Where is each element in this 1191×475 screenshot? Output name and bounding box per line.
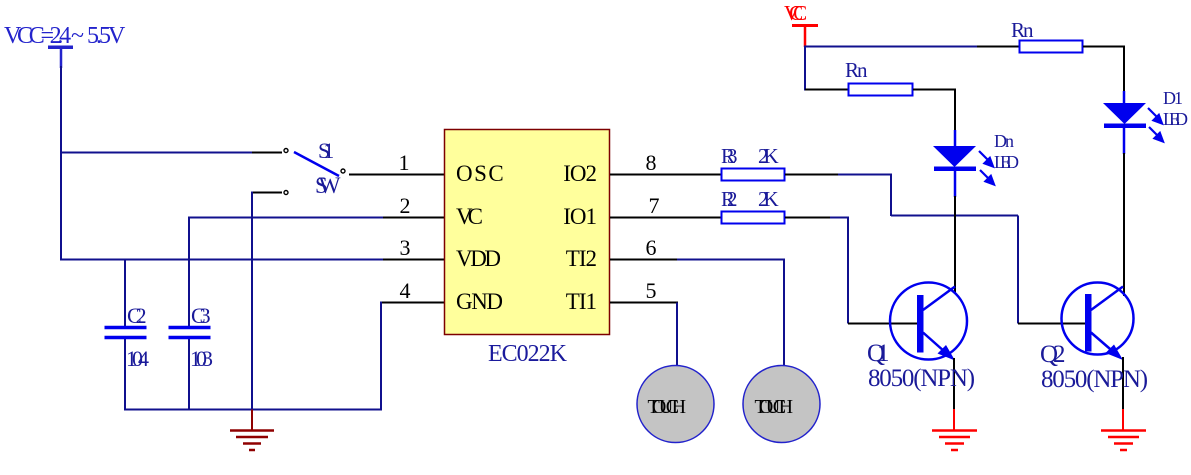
svg-text:EC022K: EC022K: [488, 341, 568, 367]
svg-text:8: 8: [646, 150, 657, 175]
svg-text:Dn: Dn: [994, 131, 1014, 151]
svg-text:IO2: IO2: [563, 161, 596, 186]
svg-text:TI2: TI2: [566, 246, 597, 271]
svg-text:3: 3: [400, 235, 411, 260]
svg-text:~: ~: [71, 23, 84, 49]
svg-text:8050(NPN): 8050(NPN): [1041, 366, 1148, 393]
svg-text:Rn: Rn: [1011, 18, 1034, 42]
svg-text:5: 5: [646, 278, 657, 303]
svg-text:TI1: TI1: [566, 289, 597, 314]
svg-text:IO1: IO1: [563, 204, 596, 229]
svg-text:4: 4: [400, 278, 411, 303]
svg-text:GND: GND: [456, 289, 502, 314]
svg-text:5.5V: 5.5V: [87, 23, 126, 49]
svg-text:Rn: Rn: [845, 58, 868, 82]
svg-text:OSC: OSC: [456, 161, 505, 186]
svg-text:D1: D1: [1163, 88, 1182, 108]
svg-text:VDD: VDD: [456, 246, 500, 271]
svg-text:2: 2: [400, 193, 411, 218]
svg-text:1: 1: [399, 150, 410, 175]
svg-text:VCC=2.4: VCC=2.4: [4, 23, 71, 49]
svg-text:6: 6: [646, 235, 657, 260]
svg-text:7: 7: [649, 193, 660, 218]
svg-text:8050(NPN): 8050(NPN): [868, 365, 975, 392]
